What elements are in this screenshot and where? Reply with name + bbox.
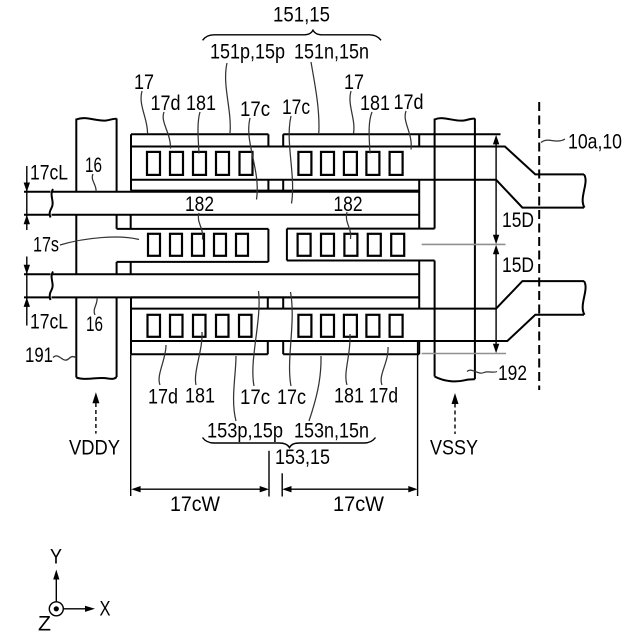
- svg-text:153n,15n: 153n,15n: [294, 420, 369, 443]
- leader from 181 top-left: [198, 112, 200, 154]
- svg-text:17c: 17c: [240, 98, 270, 121]
- squiggle leader for 10a,10: [541, 139, 565, 143]
- dimension 17cW baseline with arrows: [131, 342, 418, 497]
- svg-text:191: 191: [25, 344, 53, 367]
- top comb right edge segments: [418, 134, 420, 146]
- top comb bottom edge: [131, 190, 419, 192]
- axis X arrow: [63, 608, 88, 610]
- leader from 153p,15p: [234, 356, 236, 421]
- svg-text:151,15: 151,15: [273, 4, 330, 27]
- source region 17s middle row: left box merging into rail 191: [117, 215, 435, 309]
- dimension 15D lower arrow: [493, 245, 499, 354]
- leader from 182 left: [198, 213, 202, 240]
- dimension 15D upper arrow: [493, 135, 499, 244]
- svg-text:VSSY: VSSY: [430, 437, 478, 460]
- squiggle leader for 191: [53, 356, 76, 360]
- bottom drain strip 17d row 153: [131, 281, 584, 354]
- leader from 17s: [60, 237, 139, 245]
- svg-text:192: 192: [498, 362, 527, 385]
- leader from 16 bottom: [94, 298, 97, 315]
- contact row 182 middle-left (5 contacts): [148, 234, 248, 256]
- leader from 151n,15n: [311, 62, 319, 133]
- contact row 181 top-left (5 contacts): [147, 152, 253, 175]
- svg-text:17d: 17d: [151, 92, 181, 115]
- dimension 15D gray extension line bottom: [422, 353, 506, 355]
- leader from 16 top: [92, 174, 96, 192]
- leader from 17c top-right: [289, 116, 292, 204]
- svg-text:17d: 17d: [148, 386, 178, 409]
- leader from 182 right: [346, 212, 350, 239]
- VDDY dashed arrow: [92, 392, 99, 433]
- svg-text:17c: 17c: [240, 386, 270, 409]
- VSSY dashed arrow: [452, 393, 459, 434]
- svg-text:151p,15p: 151p,15p: [210, 41, 285, 64]
- svg-text:17: 17: [134, 71, 154, 94]
- leader from 151p,15p: [226, 63, 231, 133]
- leader from 17d top-left: [163, 112, 170, 149]
- svg-text:17d: 17d: [369, 385, 398, 408]
- boundary line 10a,10 dashed vertical: [538, 102, 540, 390]
- power rail 192 (VSSY) right vertical bar with wavy broken ends: [435, 118, 475, 381]
- leader from 17 top-left: [141, 91, 147, 134]
- gate line 16 (lower horizontal bar) with wavy left break: [24, 272, 419, 301]
- svg-text:17c: 17c: [282, 96, 310, 119]
- axis Y arrow: [55, 577, 57, 602]
- leader from 17d bottom-left: [159, 345, 166, 385]
- bottom comb right edge segment: [418, 341, 420, 354]
- svg-text:16: 16: [85, 154, 102, 177]
- leader from 153n,15n: [309, 356, 321, 421]
- source region 17s middle row: right box merging into rail 192: [287, 228, 435, 230]
- leader from 17c bottom-right: [290, 292, 293, 386]
- dimension 15D gray extension line middle: [422, 243, 506, 245]
- svg-text:17cL: 17cL: [30, 162, 68, 185]
- svg-text:Y: Y: [50, 546, 62, 569]
- 17cW extension lines: [130, 355, 132, 497]
- dimension 17cL lower arrows: [24, 257, 30, 326]
- top comb left edge: [130, 134, 132, 190]
- substrate lead 10a upper band wavy right break: [583, 174, 586, 207]
- squiggle leader for 192: [467, 370, 497, 373]
- svg-text:181: 181: [186, 92, 216, 115]
- leader from 181 top-right: [369, 112, 372, 154]
- top drain strip 17d row 151: outer top edge with center gap: [131, 134, 584, 228]
- svg-text:151n,15n: 151n,15n: [294, 41, 369, 64]
- svg-text:17c: 17c: [277, 386, 306, 409]
- leader from 17d bottom-right: [381, 347, 388, 385]
- contact row 182 middle-right (5 contacts): [298, 234, 405, 256]
- svg-text:Z: Z: [38, 613, 51, 636]
- svg-text:16: 16: [86, 313, 103, 336]
- notch verticals right x=419.2 lower segment: [418, 261, 420, 309]
- svg-text:17s: 17s: [33, 234, 59, 257]
- leader from 17d top-right: [405, 111, 411, 150]
- svg-text:17d: 17d: [394, 91, 424, 114]
- svg-text:181: 181: [360, 92, 390, 115]
- svg-text:17: 17: [344, 71, 364, 94]
- bottom comb center gap verticals: [268, 297, 283, 308]
- substrate lead 10a lower band wavy right break: [583, 281, 586, 315]
- svg-text:17cL: 17cL: [30, 311, 68, 334]
- leader from 181 bottom-right: [346, 334, 350, 385]
- svg-text:153,15: 153,15: [275, 446, 330, 469]
- svg-text:10a,10: 10a,10: [568, 131, 622, 154]
- svg-text:153p,15p: 153p,15p: [207, 420, 283, 443]
- top row inner line (active top) extending into right lead: [131, 147, 584, 175]
- leader from 181 bottom-left: [195, 332, 202, 385]
- svg-text:181: 181: [334, 385, 364, 408]
- bottom comb left edge: [130, 297, 132, 354]
- svg-text:182: 182: [334, 193, 363, 216]
- gate line 16 (upper horizontal bar) with wavy left break: [24, 189, 419, 218]
- svg-text:17cW: 17cW: [170, 493, 220, 516]
- top comb center gap verticals: [268, 134, 283, 146]
- notch verticals at active-region left edge x=130.7: [130, 215, 132, 275]
- svg-text:X: X: [100, 598, 111, 621]
- bottom row inner line extending into right lead: [131, 281, 584, 309]
- bottom comb top edge: [131, 296, 419, 298]
- dimension 17cL upper arrows: [24, 166, 30, 230]
- brace over 151p/151n group: [203, 30, 381, 40]
- leader from 17 top-right: [350, 91, 354, 134]
- svg-text:182: 182: [185, 193, 214, 216]
- contact row 181 bottom-left (5 contacts): [148, 315, 252, 337]
- brace under 153p/153n group: [203, 438, 376, 448]
- leader from 17c top-left: [249, 118, 258, 200]
- svg-text:15D: 15D: [502, 209, 534, 232]
- bottom comb outer bottom edge with center gap: [131, 353, 419, 355]
- leader from 17c bottom-left: [253, 291, 259, 386]
- top row inner lower line extending into right lead: [131, 180, 584, 208]
- contact row 181 top-right (5 contacts): [298, 152, 402, 175]
- svg-text:VDDY: VDDY: [69, 437, 120, 460]
- svg-text:181: 181: [185, 385, 215, 408]
- axis icon: Z circle with dot: [49, 570, 95, 616]
- svg-text:15D: 15D: [502, 254, 534, 277]
- contact row 181 bottom-right (5 contacts): [298, 315, 402, 337]
- svg-text:17cW: 17cW: [333, 493, 384, 516]
- power rail 191 (VDDY) left vertical bar with wavy broken ends: [76, 118, 116, 379]
